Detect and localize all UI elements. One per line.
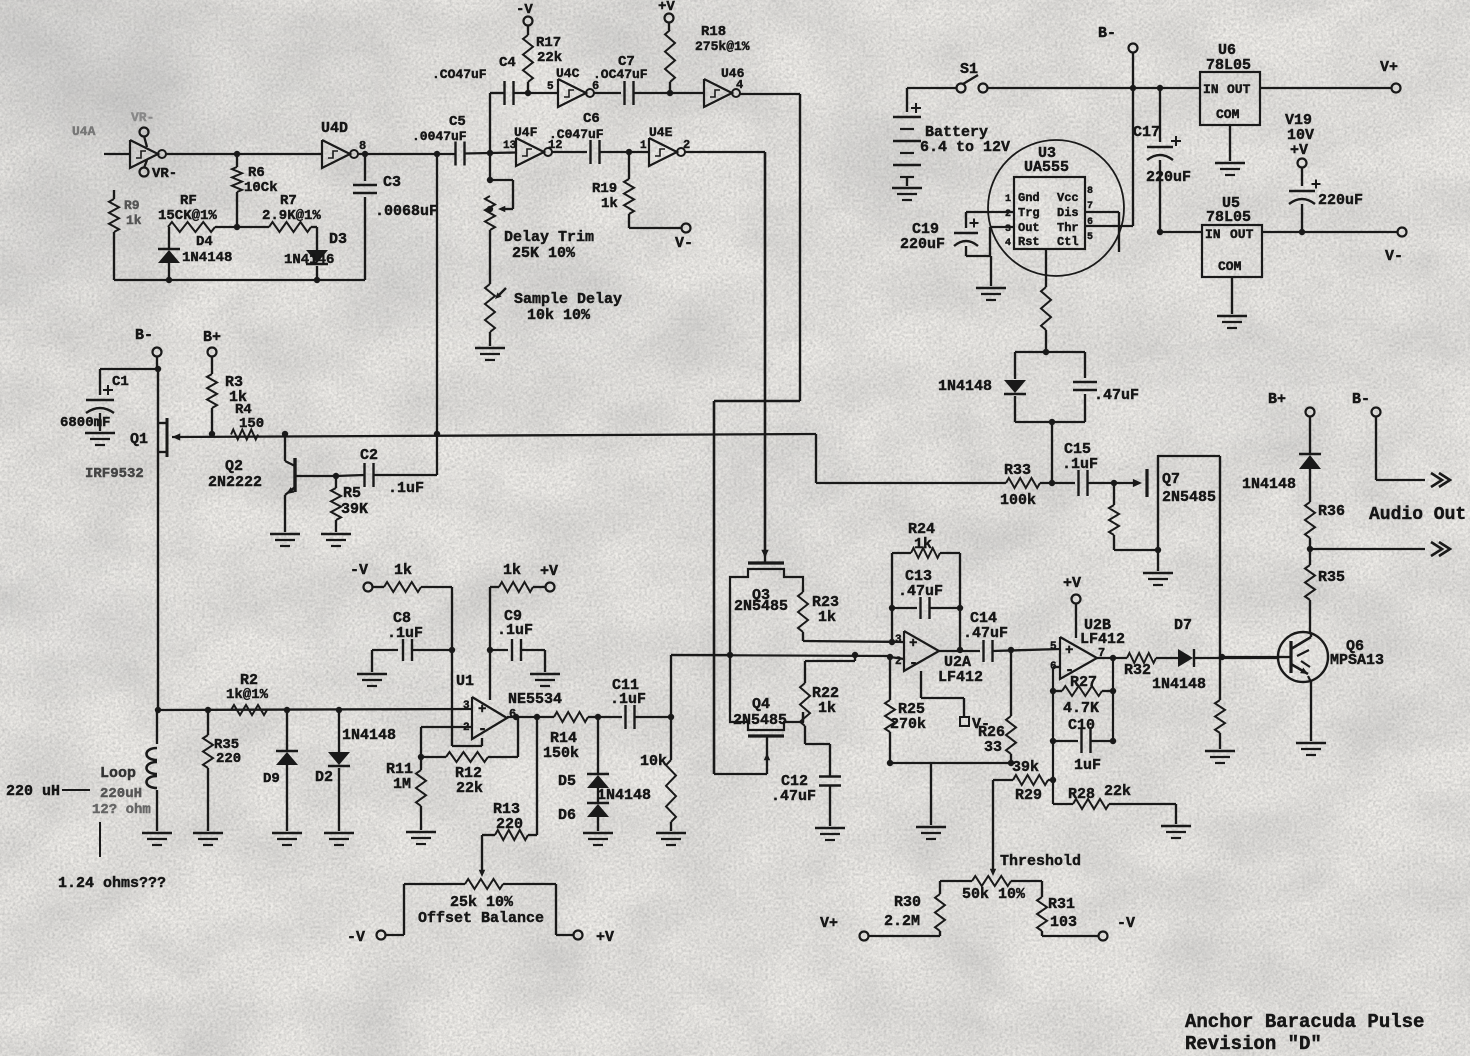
svg-text:Ctl: Ctl <box>1057 235 1079 249</box>
svg-text:B-: B- <box>1098 25 1116 42</box>
svg-text:+V: +V <box>1290 142 1308 159</box>
svg-text:R17: R17 <box>536 35 561 51</box>
svg-text:C3: C3 <box>383 174 401 191</box>
svg-text:.47uF: .47uF <box>1094 387 1139 404</box>
svg-text:10Ck: 10Ck <box>244 180 278 196</box>
svg-text:IN: IN <box>1203 82 1219 97</box>
svg-text:Anchor Baracuda Pulse: Anchor Baracuda Pulse <box>1185 1011 1424 1033</box>
svg-text:D5: D5 <box>558 773 576 790</box>
svg-text:12? ohm: 12? ohm <box>92 802 151 818</box>
svg-text:1k: 1k <box>601 196 618 212</box>
svg-text:1: 1 <box>640 140 647 152</box>
svg-text:78L05: 78L05 <box>1206 209 1251 226</box>
svg-text:2.2M: 2.2M <box>884 913 920 930</box>
svg-text:C4: C4 <box>499 55 516 71</box>
svg-text:Rst: Rst <box>1018 235 1040 249</box>
svg-text:8: 8 <box>1087 186 1093 197</box>
svg-text:D6: D6 <box>558 807 576 824</box>
svg-text:1k: 1k <box>914 536 932 553</box>
svg-text:C6: C6 <box>583 111 600 127</box>
svg-text:Thr: Thr <box>1057 221 1079 235</box>
svg-text:+V: +V <box>1063 575 1081 592</box>
svg-text:2: 2 <box>1005 209 1011 220</box>
svg-text:103: 103 <box>1050 914 1077 931</box>
svg-text:C5: C5 <box>449 114 466 130</box>
svg-text:10k 10%: 10k 10% <box>527 307 591 324</box>
svg-text:B+: B+ <box>1268 391 1286 408</box>
svg-text:D2: D2 <box>315 769 333 786</box>
svg-text:R19: R19 <box>592 181 617 197</box>
svg-text:.1uF: .1uF <box>497 622 533 639</box>
svg-text:1k: 1k <box>818 609 836 626</box>
svg-text:U4A: U4A <box>72 124 96 139</box>
svg-text:5: 5 <box>1050 641 1057 653</box>
svg-text:.47uF: .47uF <box>898 583 943 600</box>
svg-text:.C047uF: .C047uF <box>549 127 604 142</box>
svg-text:.CO47uF: .CO47uF <box>432 67 487 82</box>
svg-text:1: 1 <box>1005 194 1011 205</box>
svg-text:Vcc: Vcc <box>1057 191 1079 205</box>
svg-text:+V: +V <box>540 563 558 580</box>
svg-text:R30: R30 <box>894 894 921 911</box>
svg-text:220uH: 220uH <box>100 786 142 802</box>
svg-text:15CK@1%: 15CK@1% <box>158 208 217 224</box>
svg-text:1k: 1k <box>126 213 142 228</box>
svg-text:R18: R18 <box>701 24 726 40</box>
svg-text:Out: Out <box>1018 221 1040 235</box>
svg-text:C10: C10 <box>1068 717 1095 734</box>
svg-text:U4E: U4E <box>649 125 673 140</box>
svg-text:220uF: 220uF <box>1146 169 1191 186</box>
svg-text:Threshold: Threshold <box>1000 853 1081 870</box>
svg-text:R33: R33 <box>1004 462 1031 479</box>
svg-text:22k: 22k <box>1104 783 1131 800</box>
svg-text:1.24 ohms???: 1.24 ohms??? <box>58 875 166 892</box>
svg-text:VR-: VR- <box>131 110 154 125</box>
svg-text:R35: R35 <box>1318 569 1345 586</box>
svg-text:R29: R29 <box>1015 787 1042 804</box>
svg-text:Audio Out: Audio Out <box>1369 505 1466 525</box>
svg-text:R9: R9 <box>124 198 140 213</box>
svg-text:COM: COM <box>1218 259 1242 274</box>
svg-text:33: 33 <box>984 739 1002 756</box>
svg-text:39K: 39K <box>341 501 368 518</box>
svg-text:4: 4 <box>1005 238 1011 249</box>
svg-text:.47uF: .47uF <box>771 788 816 805</box>
svg-text:B-: B- <box>1352 391 1370 408</box>
svg-text:1N4146: 1N4146 <box>284 252 334 268</box>
svg-text:R7: R7 <box>280 193 297 209</box>
svg-text:25k 10%: 25k 10% <box>450 894 514 911</box>
svg-text:D4: D4 <box>196 234 213 250</box>
svg-text:Delay Trim: Delay Trim <box>504 229 594 246</box>
svg-text:MPSA13: MPSA13 <box>1330 652 1384 669</box>
svg-text:13: 13 <box>503 140 517 152</box>
svg-text:1uF: 1uF <box>1074 757 1101 774</box>
svg-text:-V: -V <box>516 2 533 18</box>
svg-text:LF412: LF412 <box>938 669 983 686</box>
svg-text:B-: B- <box>135 327 153 344</box>
svg-text:Q4: Q4 <box>752 696 770 713</box>
svg-text:V+: V+ <box>820 915 838 932</box>
svg-text:1N4148: 1N4148 <box>342 727 396 744</box>
svg-text:2: 2 <box>683 138 690 152</box>
svg-text:1k@1%: 1k@1% <box>226 687 269 703</box>
svg-text:Q7: Q7 <box>1162 471 1180 488</box>
svg-text:Loop: Loop <box>100 765 136 782</box>
svg-text:.0047uF: .0047uF <box>412 129 467 144</box>
svg-text:+: + <box>909 636 917 652</box>
svg-text:1N4148: 1N4148 <box>938 378 992 395</box>
svg-text:D7: D7 <box>1174 617 1192 634</box>
svg-text:25K 10%: 25K 10% <box>512 245 576 262</box>
svg-text:.OC47uF: .OC47uF <box>593 67 648 82</box>
svg-text:1k: 1k <box>818 700 836 717</box>
svg-text:Q1: Q1 <box>130 431 148 448</box>
svg-text:270k: 270k <box>890 716 926 733</box>
svg-text:COM: COM <box>1216 107 1240 122</box>
svg-text:+V: +V <box>596 929 614 946</box>
svg-text:100k: 100k <box>1000 492 1036 509</box>
svg-text:22k: 22k <box>537 50 562 66</box>
svg-text:220uF: 220uF <box>900 236 945 253</box>
svg-text:+: + <box>478 702 486 718</box>
svg-text:150k: 150k <box>543 745 579 762</box>
svg-text:R28: R28 <box>1068 786 1095 803</box>
svg-text:2.9K@1%: 2.9K@1% <box>262 208 321 224</box>
svg-text:U1: U1 <box>456 673 474 690</box>
svg-text:U4F: U4F <box>514 125 538 140</box>
svg-text:D3: D3 <box>329 231 347 248</box>
svg-text:Gnd: Gnd <box>1018 191 1040 205</box>
svg-text:220uF: 220uF <box>1318 192 1363 209</box>
svg-text:NE5534: NE5534 <box>508 691 562 708</box>
svg-text:V-: V- <box>1385 248 1403 265</box>
svg-text:Q2: Q2 <box>225 458 243 475</box>
svg-text:D9: D9 <box>263 771 280 787</box>
svg-text:U46: U46 <box>721 66 745 81</box>
svg-text:U4C: U4C <box>556 66 580 81</box>
svg-text:6800mF: 6800mF <box>60 415 110 431</box>
svg-text:V-: V- <box>972 716 990 733</box>
svg-text:Revision "D": Revision "D" <box>1185 1033 1322 1055</box>
svg-text:220: 220 <box>496 816 523 833</box>
svg-text:.0068uF: .0068uF <box>375 203 438 220</box>
svg-text:VR-: VR- <box>152 166 177 182</box>
svg-text:3: 3 <box>463 700 470 712</box>
svg-text:+: + <box>1065 643 1073 659</box>
svg-text:IN: IN <box>1205 227 1221 242</box>
svg-text:22k: 22k <box>456 780 483 797</box>
svg-text:6.4 to 12V: 6.4 to 12V <box>920 139 1010 156</box>
svg-text:+V: +V <box>658 0 675 15</box>
svg-text:220 uH: 220 uH <box>6 783 60 800</box>
svg-text:1k: 1k <box>503 562 521 579</box>
svg-text:.1uF: .1uF <box>610 691 646 708</box>
svg-text:C1: C1 <box>112 374 129 390</box>
svg-text:1k: 1k <box>394 562 412 579</box>
svg-text:2N5485: 2N5485 <box>733 712 787 729</box>
svg-text:1N4148: 1N4148 <box>597 787 651 804</box>
svg-text:-V: -V <box>347 929 365 946</box>
svg-text:OUT: OUT <box>1227 82 1251 97</box>
svg-text:.1uF: .1uF <box>388 480 424 497</box>
svg-text:5: 5 <box>1087 232 1093 243</box>
svg-text:R5: R5 <box>343 485 361 502</box>
svg-text:-: - <box>478 721 487 738</box>
svg-text:10k: 10k <box>640 753 667 770</box>
svg-text:Offset Balance: Offset Balance <box>418 910 544 927</box>
svg-text:5: 5 <box>547 81 554 93</box>
svg-text:3: 3 <box>895 634 902 646</box>
svg-text:3: 3 <box>1005 224 1011 235</box>
svg-text:2N5485: 2N5485 <box>734 598 788 615</box>
svg-text:R36: R36 <box>1318 503 1345 520</box>
svg-text:-V: -V <box>1117 915 1135 932</box>
svg-text:1M: 1M <box>393 776 411 793</box>
svg-text:R31: R31 <box>1048 896 1075 913</box>
svg-text:1N4148: 1N4148 <box>1152 676 1206 693</box>
svg-text:IRF9532: IRF9532 <box>85 466 144 482</box>
svg-text:Trg: Trg <box>1018 206 1040 220</box>
svg-text:-V: -V <box>350 562 368 579</box>
svg-text:2N5485: 2N5485 <box>1162 489 1216 506</box>
svg-text:R6: R6 <box>248 165 265 181</box>
svg-text:Dis: Dis <box>1057 206 1079 220</box>
svg-text:RF: RF <box>180 193 197 209</box>
svg-text:2N2222: 2N2222 <box>208 474 262 491</box>
svg-text:.1uF: .1uF <box>387 625 423 642</box>
svg-text:C17: C17 <box>1133 124 1160 141</box>
svg-text:OUT: OUT <box>1230 227 1254 242</box>
svg-text:7: 7 <box>1087 201 1093 212</box>
svg-text:UA555: UA555 <box>1024 159 1069 176</box>
svg-text:U4D: U4D <box>321 120 348 137</box>
svg-text:.47uF: .47uF <box>963 625 1008 642</box>
svg-text:Sample Delay: Sample Delay <box>514 291 622 308</box>
svg-text:R32: R32 <box>1124 662 1151 679</box>
svg-text:1N4148: 1N4148 <box>182 250 232 266</box>
svg-text:50k 10%: 50k 10% <box>962 886 1026 903</box>
svg-text:275k@1%: 275k@1% <box>695 39 750 54</box>
svg-text:-: - <box>909 655 918 672</box>
svg-text:220: 220 <box>216 751 241 767</box>
svg-text:39k: 39k <box>1012 759 1039 776</box>
svg-text:4.7K: 4.7K <box>1063 700 1099 717</box>
svg-text:R27: R27 <box>1070 674 1097 691</box>
svg-text:B+: B+ <box>203 329 221 346</box>
svg-text:V-: V- <box>675 235 693 252</box>
svg-text:C2: C2 <box>360 447 378 464</box>
svg-text:LF412: LF412 <box>1080 631 1125 648</box>
svg-text:V+: V+ <box>1380 59 1398 76</box>
svg-text:.1uF: .1uF <box>1062 456 1098 473</box>
svg-text:1N4148: 1N4148 <box>1242 476 1296 493</box>
